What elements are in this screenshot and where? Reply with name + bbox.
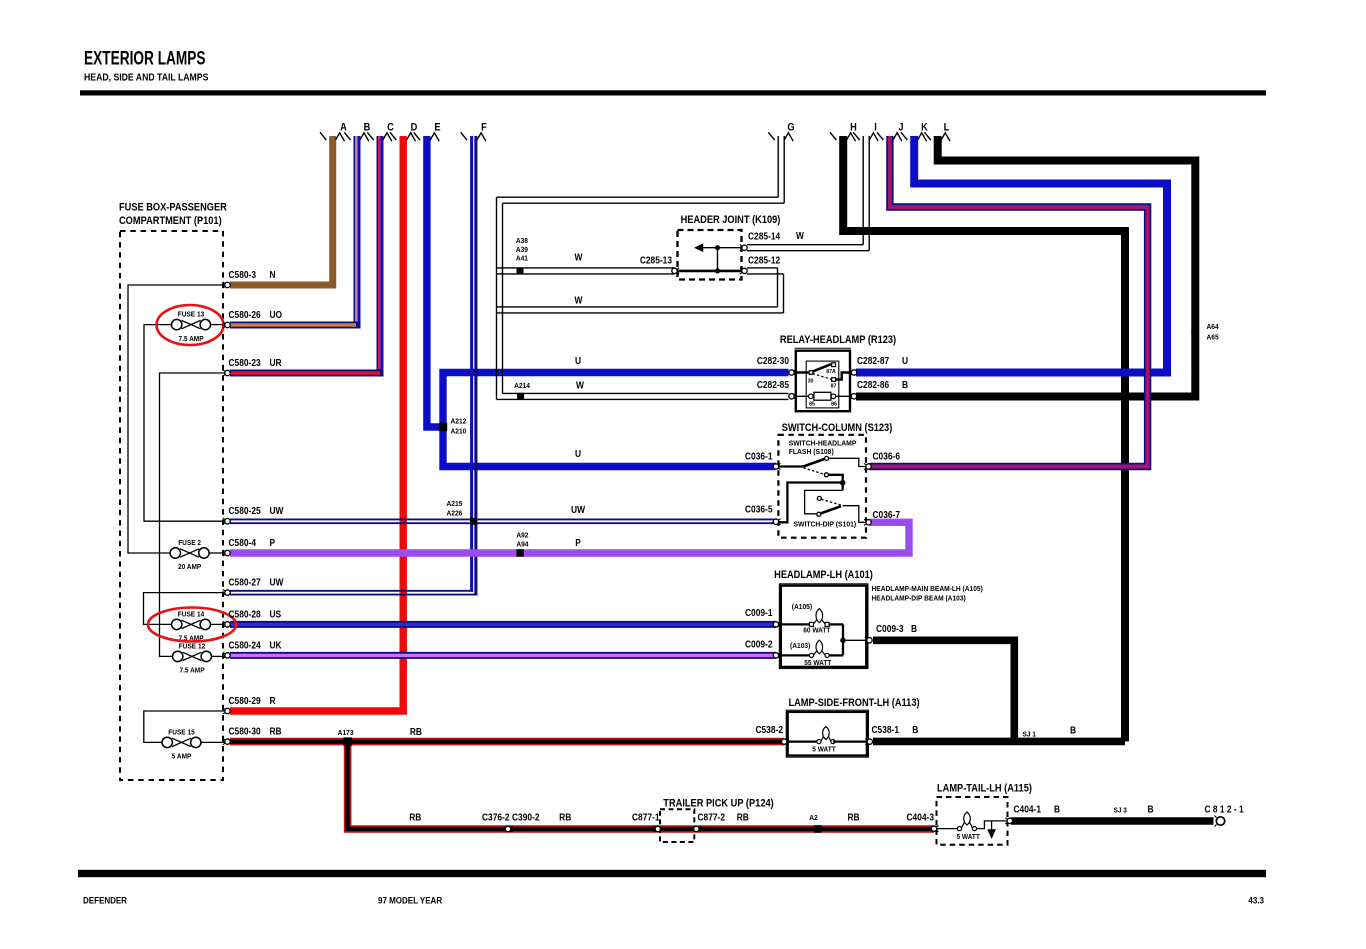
svg-text:A2: A2: [809, 815, 818, 822]
svg-text:TRAILER PICK UP (P124): TRAILER PICK UP (P124): [663, 798, 773, 810]
svg-text:60 WATT: 60 WATT: [803, 627, 831, 634]
svg-text:SWITCH-DIP (S101): SWITCH-DIP (S101): [794, 520, 857, 528]
svg-text:FUSE BOX-PASSENGER: FUSE BOX-PASSENGER: [119, 202, 227, 214]
svg-text:43.3: 43.3: [1248, 895, 1264, 906]
svg-text:C580-28: C580-28: [229, 609, 261, 620]
svg-text:J: J: [898, 122, 903, 134]
svg-text:RB: RB: [410, 726, 422, 737]
svg-text:RB: RB: [270, 726, 282, 737]
svg-text:US: US: [270, 609, 282, 620]
svg-text:G: G: [787, 122, 794, 134]
svg-text:97 MODEL YEAR: 97 MODEL YEAR: [378, 895, 443, 906]
svg-text:U: U: [575, 448, 581, 459]
svg-text:A210: A210: [451, 429, 467, 436]
svg-text:F: F: [481, 122, 487, 134]
svg-text:C009-1: C009-1: [745, 607, 773, 618]
svg-text:E: E: [434, 122, 441, 134]
svg-text:RELAY-HEADLAMP (R123): RELAY-HEADLAMP (R123): [780, 334, 896, 346]
svg-text:UR: UR: [270, 357, 282, 368]
svg-text:C580-30: C580-30: [229, 726, 261, 737]
svg-text:LAMP-SIDE-FRONT-LH (A113): LAMP-SIDE-FRONT-LH (A113): [788, 698, 919, 710]
svg-text:C036-5: C036-5: [745, 504, 773, 515]
svg-text:UW: UW: [270, 577, 284, 588]
svg-text:RB: RB: [737, 812, 749, 823]
svg-text:C282-30: C282-30: [757, 355, 789, 366]
svg-text:A92: A92: [516, 532, 528, 539]
svg-text:55 WATT: 55 WATT: [804, 660, 832, 667]
svg-text:B: B: [911, 623, 917, 634]
svg-text:C009-3: C009-3: [876, 623, 904, 634]
svg-text:20 AMP: 20 AMP: [178, 564, 202, 571]
svg-text:C580-4: C580-4: [229, 537, 257, 548]
svg-text:C404-1: C404-1: [1014, 804, 1042, 815]
svg-text:W: W: [576, 380, 584, 391]
svg-text:RB: RB: [559, 812, 571, 823]
svg-text:C580-25: C580-25: [229, 506, 261, 517]
svg-text:L: L: [944, 122, 950, 134]
svg-text:C036-6: C036-6: [873, 451, 901, 462]
svg-text:86: 86: [831, 401, 837, 407]
svg-text:B: B: [1054, 804, 1060, 815]
svg-text:A226: A226: [447, 510, 463, 517]
svg-text:RB: RB: [409, 812, 421, 823]
svg-text:FUSE 2: FUSE 2: [178, 540, 201, 547]
svg-text:SJ 3: SJ 3: [1114, 807, 1128, 814]
svg-text:C538-2: C538-2: [755, 724, 783, 735]
svg-text:H: H: [850, 122, 857, 134]
svg-text:30: 30: [808, 378, 814, 384]
svg-text:UW: UW: [270, 506, 284, 517]
svg-text:I: I: [874, 122, 877, 134]
svg-text:EXTERIOR LAMPS: EXTERIOR LAMPS: [84, 47, 206, 69]
svg-text:P: P: [270, 537, 276, 548]
svg-text:C580-24: C580-24: [229, 640, 262, 651]
svg-text:B: B: [1147, 804, 1153, 815]
svg-text:7.5 AMP: 7.5 AMP: [178, 335, 203, 342]
svg-text:A173: A173: [338, 730, 354, 737]
svg-text:D: D: [411, 122, 418, 134]
svg-text:C877-1: C877-1: [632, 812, 660, 823]
svg-text:87A: 87A: [826, 369, 836, 375]
svg-text:R: R: [270, 695, 276, 706]
svg-text:P: P: [575, 537, 581, 548]
svg-text:C877-2: C877-2: [698, 812, 726, 823]
svg-text:HEADLAMP-MAIN BEAM-LH (A105): HEADLAMP-MAIN BEAM-LH (A105): [872, 586, 983, 593]
svg-text:FUSE 14: FUSE 14: [178, 611, 205, 618]
svg-text:C404-3: C404-3: [906, 812, 934, 823]
svg-text:5 WATT: 5 WATT: [812, 746, 836, 753]
svg-text:B: B: [1070, 725, 1076, 736]
svg-text:87: 87: [831, 383, 837, 389]
svg-text:C036-1: C036-1: [745, 451, 773, 462]
svg-text:C580-27: C580-27: [229, 577, 261, 588]
svg-text:W: W: [574, 295, 582, 306]
svg-text:A64: A64: [1207, 324, 1219, 331]
svg-text:A38: A38: [516, 238, 528, 245]
svg-text:B: B: [912, 724, 918, 735]
svg-text:LAMP-TAIL-LH (A115): LAMP-TAIL-LH (A115): [937, 783, 1032, 795]
svg-text:UK: UK: [270, 640, 282, 651]
svg-text:C285-13: C285-13: [640, 255, 672, 266]
svg-text:FUSE 13: FUSE 13: [178, 311, 205, 318]
svg-text:UO: UO: [270, 309, 283, 320]
svg-text:FUSE 15: FUSE 15: [168, 729, 195, 736]
svg-text:C580-29: C580-29: [229, 695, 261, 706]
svg-text:HEADLAMP-DIP BEAM (A103): HEADLAMP-DIP BEAM (A103): [872, 595, 966, 602]
svg-text:N: N: [270, 269, 276, 280]
svg-text:A65: A65: [1207, 334, 1219, 341]
svg-text:COMPARTMENT (P101): COMPARTMENT (P101): [119, 215, 222, 227]
svg-text:B: B: [902, 379, 908, 390]
svg-text:C538-1: C538-1: [872, 724, 900, 735]
svg-text:C390-2: C390-2: [512, 812, 540, 823]
svg-text:FLASH (S108): FLASH (S108): [789, 448, 835, 456]
svg-text:A215: A215: [447, 501, 463, 508]
svg-text:B: B: [364, 122, 371, 134]
svg-text:C: C: [387, 122, 394, 134]
svg-text:C580-3: C580-3: [229, 269, 257, 280]
svg-text:HEADLAMP-LH (A101): HEADLAMP-LH (A101): [774, 570, 873, 582]
svg-text:UW: UW: [571, 504, 585, 515]
svg-text:C 8 1 2 - 1: C 8 1 2 - 1: [1205, 804, 1244, 815]
svg-text:85: 85: [809, 401, 815, 407]
svg-text:U: U: [575, 355, 581, 366]
svg-text:A212: A212: [451, 418, 467, 425]
svg-text:C282-86: C282-86: [857, 379, 889, 390]
svg-text:K: K: [921, 122, 928, 134]
svg-text:C282-87: C282-87: [857, 355, 889, 366]
svg-text:A214: A214: [514, 383, 530, 390]
svg-text:5 AMP: 5 AMP: [172, 753, 192, 760]
svg-text:SWITCH-COLUMN (S123): SWITCH-COLUMN (S123): [782, 422, 893, 434]
svg-text:(A103): (A103): [790, 643, 810, 650]
svg-text:C285-12: C285-12: [748, 255, 780, 266]
svg-text:SWITCH-HEADLAMP: SWITCH-HEADLAMP: [789, 439, 857, 447]
svg-text:HEAD, SIDE AND TAIL LAMPS: HEAD, SIDE AND TAIL LAMPS: [84, 72, 208, 83]
svg-text:C285-14: C285-14: [748, 231, 781, 242]
svg-text:A94: A94: [516, 541, 528, 548]
svg-text:W: W: [574, 252, 582, 263]
svg-text:FUSE 12: FUSE 12: [179, 643, 206, 650]
svg-text:C376-2: C376-2: [482, 812, 510, 823]
svg-text:7.5 AMP: 7.5 AMP: [179, 667, 204, 674]
svg-text:A39: A39: [516, 247, 528, 254]
svg-text:A: A: [340, 122, 347, 134]
svg-text:5 WATT: 5 WATT: [957, 834, 981, 841]
svg-text:SJ 1: SJ 1: [1023, 731, 1037, 738]
svg-text:C036-7: C036-7: [873, 509, 901, 520]
svg-text:C580-23: C580-23: [229, 357, 261, 368]
svg-text:C580-26: C580-26: [229, 309, 261, 320]
svg-text:U: U: [902, 355, 908, 366]
svg-text:HEADER JOINT (K109): HEADER JOINT (K109): [681, 214, 781, 226]
svg-text:RB: RB: [847, 812, 859, 823]
svg-text:A41: A41: [516, 255, 528, 262]
svg-text:(A105): (A105): [792, 604, 812, 611]
svg-text:DEFENDER: DEFENDER: [83, 895, 128, 906]
svg-text:W: W: [796, 230, 804, 241]
svg-text:C282-85: C282-85: [757, 379, 789, 390]
svg-text:C009-2: C009-2: [745, 639, 773, 650]
